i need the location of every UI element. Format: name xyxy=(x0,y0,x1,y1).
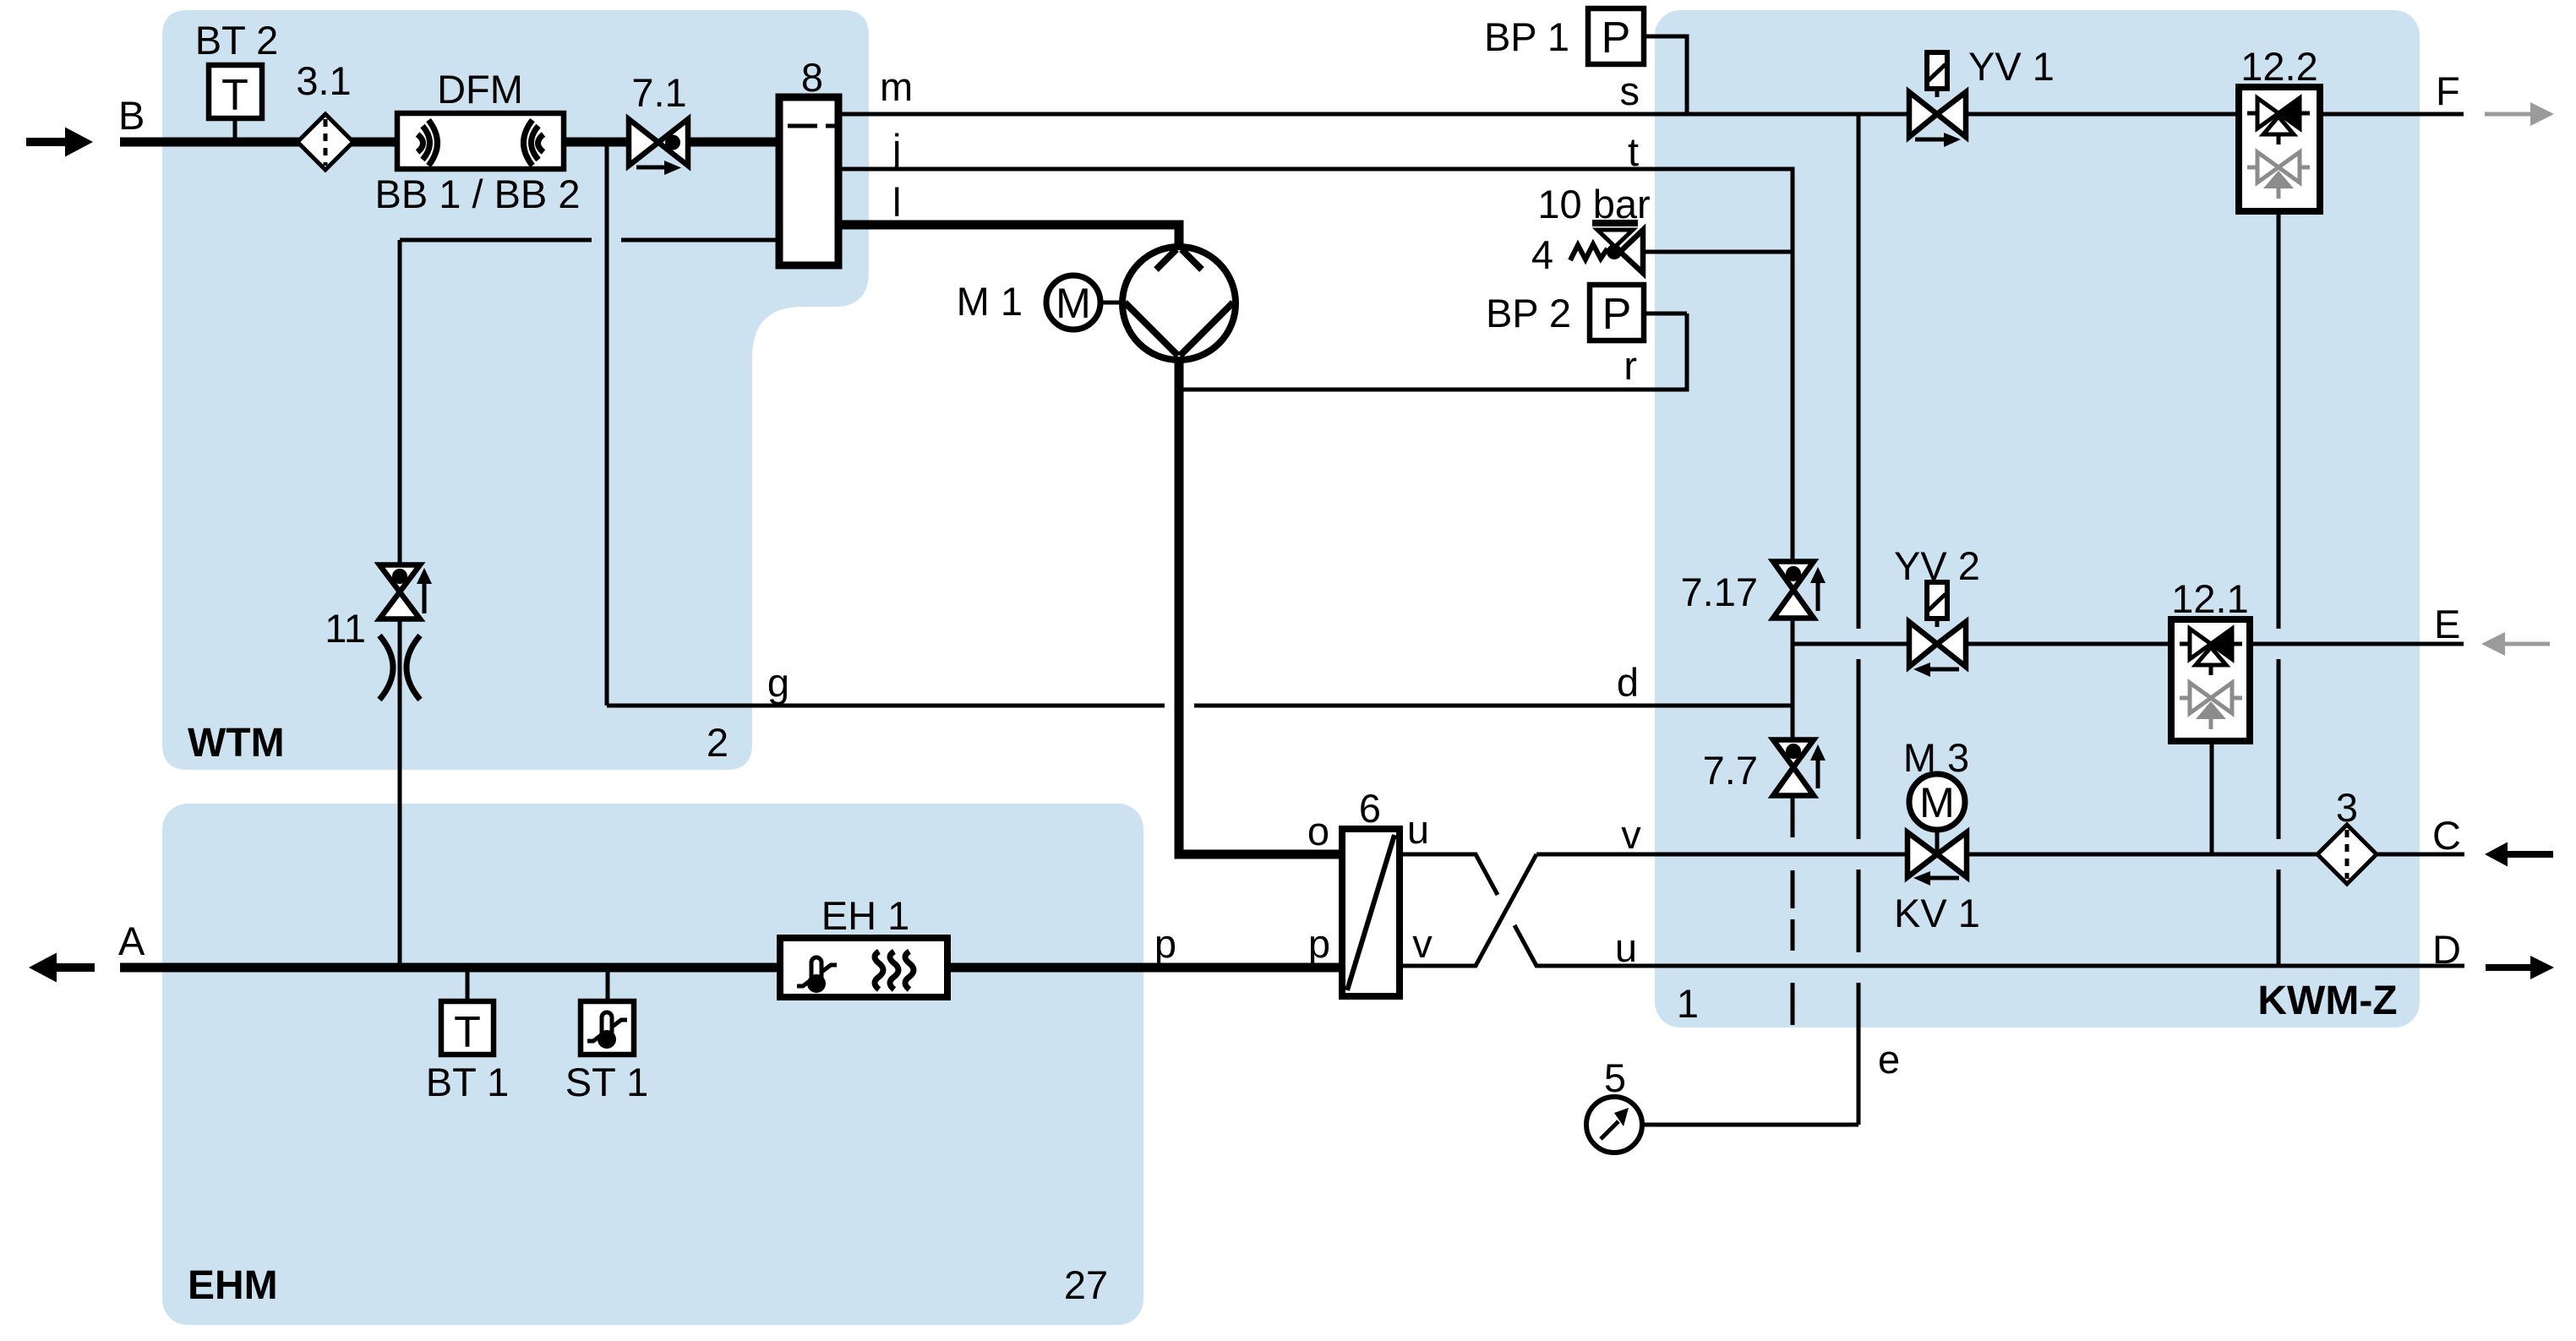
svg-text:ST 1: ST 1 xyxy=(565,1060,648,1104)
svg-text:BT 1: BT 1 xyxy=(426,1060,509,1104)
svg-text:d: d xyxy=(1617,660,1639,705)
accumulator component 8 xyxy=(779,97,838,265)
wire pump down thick xyxy=(1179,360,1342,854)
flow meter DFM (BB1/BB2) xyxy=(397,113,564,169)
svg-text:P: P xyxy=(1602,290,1632,339)
motor M3 xyxy=(1909,774,1965,832)
svg-text:BT 2: BT 2 xyxy=(195,18,278,63)
svg-text:p: p xyxy=(1154,921,1176,966)
svg-text:BB 1 / BB 2: BB 1 / BB 2 xyxy=(375,172,581,216)
pump P1 xyxy=(1122,247,1236,360)
flexible joint symbol below valve 11 xyxy=(379,635,420,700)
outlet arrow A xyxy=(29,953,95,983)
wire g d line xyxy=(607,704,1793,708)
wire 12.2 down to D line xyxy=(2277,211,2281,968)
svg-text:KWM-Z: KWM-Z xyxy=(2257,978,2397,1023)
valve 11 xyxy=(379,565,432,619)
svg-text:F: F xyxy=(2436,68,2460,113)
wire j t line xyxy=(838,169,1793,252)
svg-text:v: v xyxy=(1621,812,1641,857)
svg-text:T: T xyxy=(221,71,248,120)
svg-text:10 bar: 10 bar xyxy=(1537,182,1650,226)
svg-text:3: 3 xyxy=(2336,785,2358,830)
svg-text:8: 8 xyxy=(801,55,823,100)
gauge 5 xyxy=(1586,1097,1642,1153)
wire A p thick line xyxy=(120,963,1342,973)
svg-text:l: l xyxy=(892,180,901,225)
inlet arrow C xyxy=(2485,842,2553,867)
svg-text:M: M xyxy=(1919,779,1955,826)
svg-text:D: D xyxy=(2432,927,2461,972)
valve 7.17 xyxy=(1773,252,1826,619)
svg-text:DFM: DFM xyxy=(437,67,523,112)
backflow preventer 12.2 xyxy=(2239,87,2320,211)
svg-text:r: r xyxy=(1624,343,1637,388)
wire 12.1 to E xyxy=(2250,642,2464,646)
svg-text:C: C xyxy=(2432,813,2461,858)
filter 3.1 xyxy=(297,114,353,170)
wire vertical x718 from B line to g corner xyxy=(605,142,609,706)
svg-text:E: E xyxy=(2434,602,2460,646)
svg-text:12.2: 12.2 xyxy=(2240,44,2317,89)
svg-text:12.1: 12.1 xyxy=(2171,576,2248,621)
wire BB junction line y284 xyxy=(400,238,779,243)
svg-text:27: 27 xyxy=(1064,1262,1108,1307)
svg-text:M 1: M 1 xyxy=(957,279,1023,324)
svg-text:M 3: M 3 xyxy=(1903,735,1969,780)
pressure sensor BP1 xyxy=(1588,8,1687,114)
svg-text:M: M xyxy=(1056,280,1091,327)
valve 7.7 xyxy=(1773,740,1826,796)
backflow preventer 12.1 xyxy=(2171,619,2250,741)
dashed line below 7.7 xyxy=(1791,870,1795,1025)
thermostat ST1 xyxy=(581,972,634,1055)
svg-text:e: e xyxy=(1878,1037,1900,1082)
svg-text:11: 11 xyxy=(325,606,366,651)
svg-text:YV 2: YV 2 xyxy=(1894,543,1980,588)
svg-text:T: T xyxy=(454,1008,481,1057)
wire YV2 to 12.1 xyxy=(1966,642,2171,646)
inlet arrow E gray xyxy=(2481,632,2550,656)
svg-text:j: j xyxy=(891,126,901,171)
svg-text:u: u xyxy=(1407,807,1429,852)
svg-text:7.1: 7.1 xyxy=(631,70,686,115)
svg-text:t: t xyxy=(1628,129,1639,174)
WTM module background xyxy=(162,10,869,770)
svg-text:2: 2 xyxy=(707,720,729,765)
temperature sensor BT2 xyxy=(209,65,262,140)
wire 7.17 to d corner xyxy=(1791,619,1795,739)
filter 3 xyxy=(2317,825,2377,884)
svg-text:6: 6 xyxy=(1359,786,1381,831)
outlet arrow F gray xyxy=(2485,102,2554,126)
wire B main thick xyxy=(120,138,629,147)
wire vertical x473 down to A line xyxy=(398,240,402,968)
wire valve7.1 to comp8 thick xyxy=(688,138,779,147)
relief valve 4 xyxy=(1570,223,1793,273)
svg-text:u: u xyxy=(1615,925,1637,970)
svg-text:7.17: 7.17 xyxy=(1681,570,1758,614)
wire gauge to e line xyxy=(1643,1123,1858,1127)
EHM module background xyxy=(162,804,1143,1325)
svg-text:s: s xyxy=(1620,68,1640,113)
wire r line xyxy=(1179,313,1687,390)
svg-text:WTM: WTM xyxy=(188,721,285,766)
KWM-Z module background xyxy=(1655,10,2420,1028)
inlet arrow B xyxy=(26,128,93,157)
heat exchanger 6 xyxy=(1342,829,1400,996)
outlet arrow D xyxy=(2486,956,2554,979)
svg-text:7.7: 7.7 xyxy=(1703,748,1758,793)
pressure sensor BP2 xyxy=(1590,285,1687,341)
svg-text:4: 4 xyxy=(1531,232,1553,277)
svg-text:BP 1: BP 1 xyxy=(1484,14,1569,59)
svg-text:v: v xyxy=(1412,921,1433,966)
svg-text:EH 1: EH 1 xyxy=(821,893,910,938)
svg-text:B: B xyxy=(118,93,145,138)
svg-text:A: A xyxy=(118,919,145,963)
svg-text:g: g xyxy=(767,660,789,705)
motor M1 xyxy=(1046,275,1124,330)
electric heater EH1 xyxy=(780,938,947,997)
svg-text:5: 5 xyxy=(1604,1055,1626,1100)
svg-text:m: m xyxy=(880,64,913,109)
svg-text:3.1: 3.1 xyxy=(296,58,351,103)
wire F line after 12.2 xyxy=(2320,112,2464,117)
wire u crossing xyxy=(1400,854,2464,966)
temperature sensor BT1 xyxy=(441,972,494,1057)
wire YV2 line left xyxy=(1793,642,1909,646)
wire v C line xyxy=(1536,853,2464,857)
wire v crossing xyxy=(1400,854,1536,966)
svg-text:BP 2: BP 2 xyxy=(1486,291,1571,335)
wire m line xyxy=(838,112,1909,117)
svg-text:EHM: EHM xyxy=(188,1263,278,1308)
wire 12.1 down to C line xyxy=(2210,741,2214,854)
svg-text:YV 1: YV 1 xyxy=(1968,44,2055,89)
wire e vertical line xyxy=(1857,114,1861,1125)
valve YV2 xyxy=(1909,582,1966,677)
wire F line after YV1 xyxy=(1966,112,2239,117)
svg-text:o: o xyxy=(1307,809,1329,853)
valve 7.1 xyxy=(629,119,688,175)
wire 7.7 down xyxy=(1791,797,1795,837)
wire l line thick xyxy=(838,225,1179,248)
svg-text:KV 1: KV 1 xyxy=(1894,891,1980,935)
valve YV1 xyxy=(1909,52,1966,147)
svg-text:p: p xyxy=(1308,921,1330,966)
svg-text:1: 1 xyxy=(1677,981,1699,1026)
valve KV1 xyxy=(1907,830,1967,886)
svg-text:P: P xyxy=(1602,14,1631,63)
